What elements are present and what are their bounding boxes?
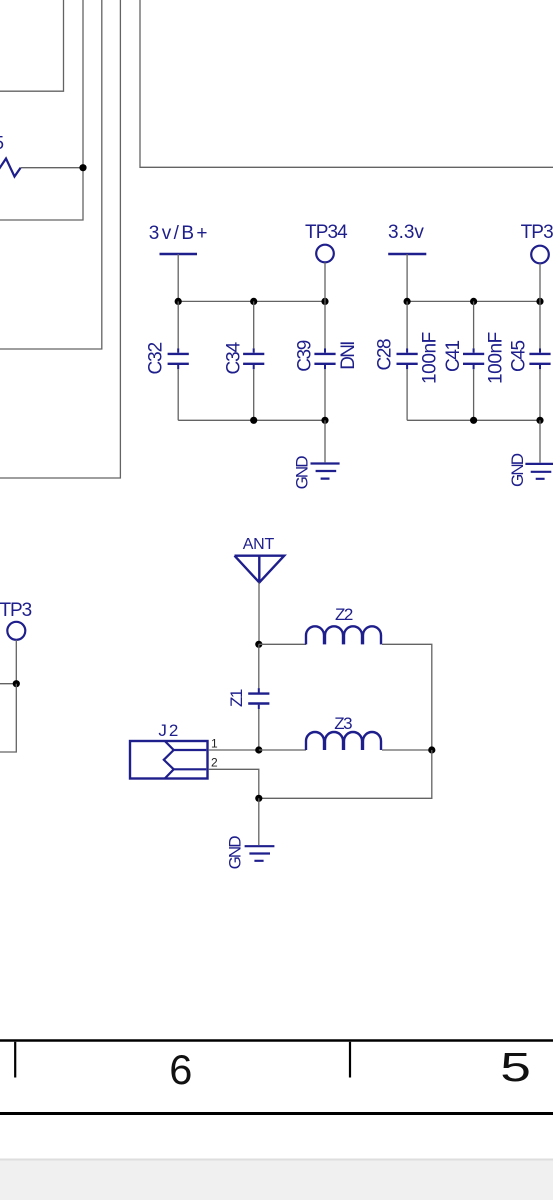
wire pin1 to node — [209, 749, 259, 751]
test point TP34 — [316, 245, 334, 263]
node bottom rail junction — [255, 795, 262, 802]
svg-text:3v/B+: 3v/B+ — [149, 223, 210, 244]
wire GND stem — [258, 798, 260, 845]
wire down and left — [0, 684, 16, 752]
node junction C28 top — [404, 298, 411, 305]
svg-text:1: 1 — [211, 737, 218, 751]
svg-text:Z2: Z2 — [335, 605, 353, 624]
svg-text:2: 2 — [211, 756, 218, 770]
node resistor/bus2 junction — [79, 164, 86, 171]
antenna ANT symbol — [235, 556, 285, 583]
svg-text:TP34: TP34 — [305, 222, 348, 243]
inductor Z2 — [306, 626, 381, 644]
ground GND3 — [245, 846, 275, 861]
wire TP34 stem — [324, 262, 326, 301]
wire bottom bus — [178, 419, 325, 421]
node pin1 junction — [255, 746, 262, 753]
svg-text:C39: C39 — [295, 340, 316, 371]
wire resistor to bus2 — [21, 167, 83, 169]
wire TP33 stem — [539, 263, 541, 301]
capacitor C39 — [314, 301, 335, 420]
node junction C45 top — [536, 298, 543, 305]
border tick right — [349, 1042, 351, 1078]
power flag 3v/B+ — [160, 253, 198, 255]
svg-text:C32: C32 — [146, 342, 167, 374]
footer gray bar — [0, 1159, 553, 1200]
wire bus4 — [0, 0, 120, 478]
node junction C39 bottom — [321, 417, 328, 424]
resistor R (clipped at left) — [0, 159, 21, 177]
svg-text:C45: C45 — [509, 341, 530, 372]
inductor Z3 — [306, 732, 381, 750]
wire output down to bottom rail — [259, 750, 432, 798]
node junction C45 bottom — [536, 417, 543, 424]
node Z3 output junction — [428, 746, 435, 753]
svg-text:GND: GND — [226, 836, 245, 870]
wire top bus — [407, 300, 540, 302]
wire power stem — [177, 254, 179, 301]
node junction C34 top — [250, 298, 257, 305]
capacitor C41 — [463, 301, 484, 420]
svg-text:100nF: 100nF — [420, 332, 441, 384]
capacitor Z1 — [248, 644, 269, 750]
wire GND stem — [539, 420, 541, 462]
capacitor C32 — [168, 301, 189, 420]
test point TP33 — [531, 246, 549, 264]
border line bottom — [0, 1112, 553, 1115]
ground GND1 — [311, 464, 340, 479]
svg-text:6: 6 — [169, 1046, 192, 1093]
wire bus1 corner top-left — [0, 0, 64, 91]
wire antenna stem — [258, 583, 260, 645]
svg-text:TP3: TP3 — [0, 600, 32, 621]
node junction C41 bottom — [470, 417, 477, 424]
svg-text:TP33: TP33 — [521, 222, 553, 243]
wire Z2 out — [382, 644, 432, 750]
node junction C41 top — [470, 298, 477, 305]
svg-text:DNI: DNI — [338, 342, 359, 370]
wire top bus — [178, 300, 325, 302]
wire to Z3 — [259, 749, 306, 751]
node TP3 junction — [13, 680, 20, 687]
svg-text:5: 5 — [500, 1044, 531, 1090]
node junction C34 bottom — [250, 417, 257, 424]
wire bus2 with resistor tap — [0, 0, 83, 220]
svg-text:C28: C28 — [375, 339, 396, 370]
wire sheet-box edge — [140, 0, 553, 167]
svg-text:C41: C41 — [443, 341, 464, 372]
connector J2 — [130, 741, 208, 779]
svg-text:GND: GND — [293, 456, 312, 490]
svg-text:GND: GND — [508, 453, 527, 487]
node antenna junction — [255, 641, 262, 648]
svg-text:J2: J2 — [158, 721, 180, 740]
wire bottom bus — [407, 419, 540, 421]
wire Z3 out — [382, 749, 432, 751]
border tick left — [14, 1042, 16, 1078]
wire from left edge — [0, 683, 16, 685]
wire GND stem — [324, 420, 326, 462]
border line top — [0, 1039, 553, 1042]
svg-text:100nF: 100nF — [486, 332, 507, 384]
wire to Z2 — [259, 643, 306, 645]
wire TP3 stem — [15, 640, 17, 684]
power flag 3.3v — [388, 253, 426, 255]
svg-text:3.3v: 3.3v — [388, 222, 424, 243]
svg-text:ANT: ANT — [243, 536, 275, 553]
svg-text:C34: C34 — [224, 341, 245, 374]
capacitor C34 — [243, 301, 264, 420]
test point TP3 — [7, 622, 25, 640]
wire pin2 to bottom rail — [209, 769, 259, 798]
capacitor C28 — [397, 301, 418, 420]
svg-text:Z3: Z3 — [334, 714, 352, 733]
node junction C39 top — [321, 298, 328, 305]
ground GND2 — [525, 464, 553, 479]
wire power stem — [406, 254, 408, 301]
capacitor C45 — [529, 301, 550, 420]
node junction C32 top — [175, 298, 182, 305]
svg-text:Z1: Z1 — [227, 689, 246, 707]
svg-text:5: 5 — [0, 133, 4, 153]
wire bus3 — [0, 0, 102, 349]
